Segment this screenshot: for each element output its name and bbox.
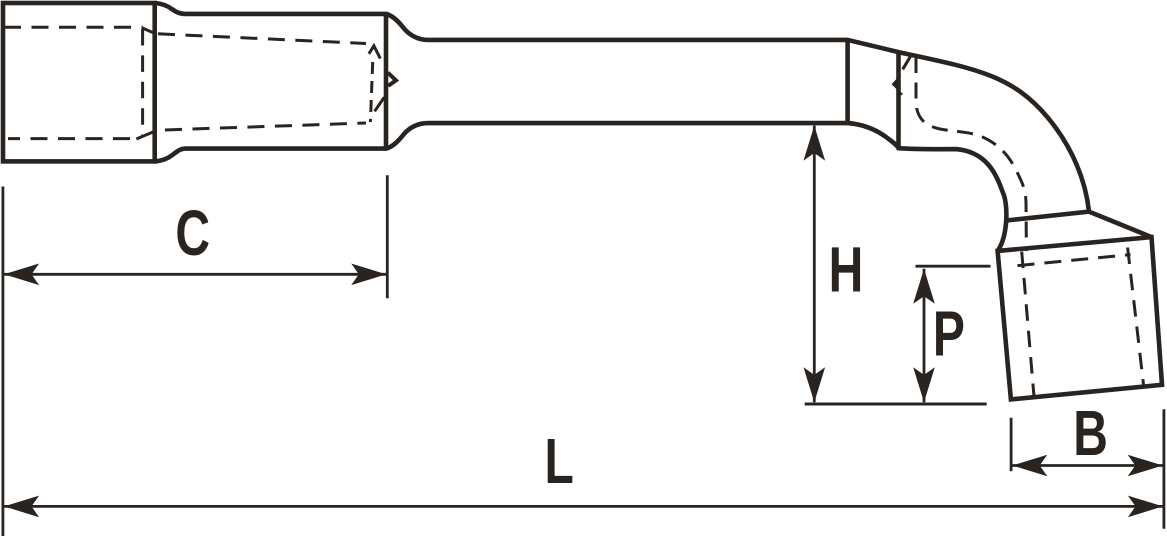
svg-text:P: P [933,298,965,369]
svg-text:H: H [829,234,864,305]
svg-text:C: C [175,198,210,269]
svg-text:B: B [1073,397,1108,468]
svg-text:L: L [545,425,574,496]
